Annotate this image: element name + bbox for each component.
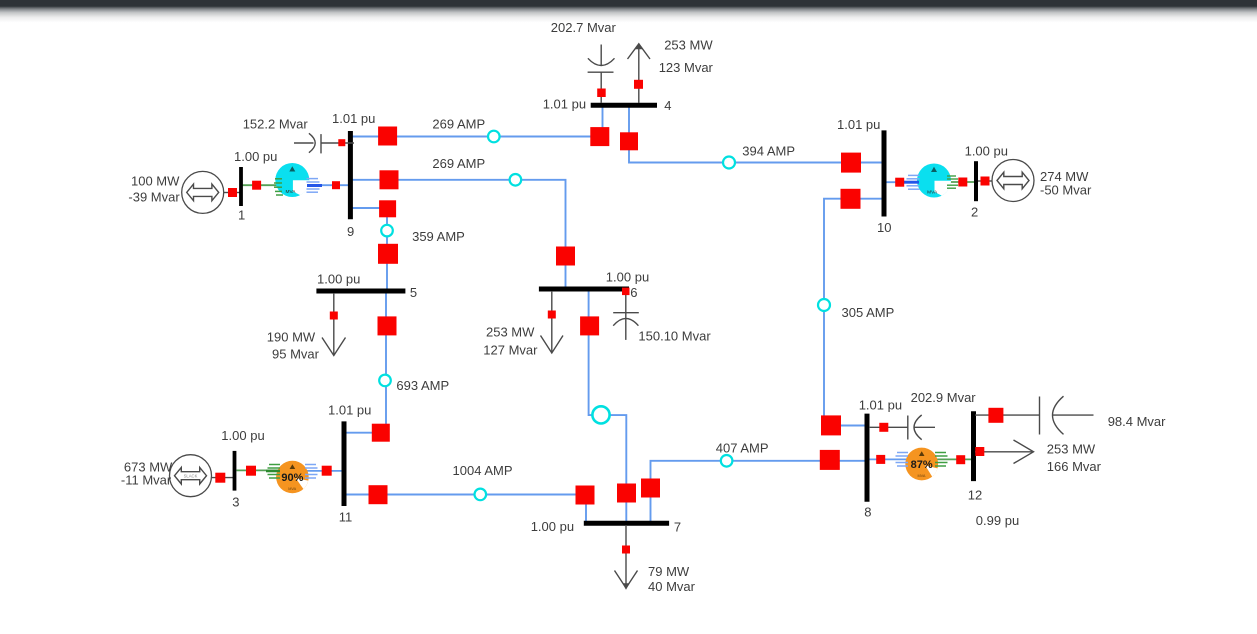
wire line 9-5 (359 AMP)	[352, 208, 387, 289]
svg-text:1.00 pu: 1.00 pu	[531, 519, 574, 534]
capacitor C8 (202.9 Mvar at bus 8)	[869, 415, 935, 440]
svg-text:1.01 pu: 1.01 pu	[332, 111, 375, 126]
svg-text:123 Mvar: 123 Mvar	[659, 60, 714, 75]
svg-text:407 AMP: 407 AMP	[716, 441, 769, 456]
breaker line4-10 b	[841, 153, 861, 173]
breaker bus8-T4	[876, 455, 885, 464]
svg-text:2: 2	[971, 205, 978, 220]
breaker T2-bus2	[958, 178, 967, 187]
svg-text:1.01 pu: 1.01 pu	[543, 96, 586, 111]
capacitor C4 (202.7 Mvar at bus 4)	[588, 45, 615, 104]
pie line11-7	[475, 489, 487, 501]
svg-text:MVA: MVA	[927, 189, 938, 195]
breaker line7-8 a	[641, 479, 660, 498]
svg-text:1.00 pu: 1.00 pu	[234, 149, 277, 164]
svg-text:-50 Mvar: -50 Mvar	[1040, 182, 1092, 197]
T3 center left arrow (dark green)	[266, 470, 280, 473]
svg-text:1.00 pu: 1.00 pu	[221, 428, 264, 443]
wire line 9-4 (269 AMP)	[352, 108, 603, 137]
generator G1	[182, 171, 224, 213]
capacitor C12 (98.4 Mvar at bus 12)	[975, 396, 1094, 434]
svg-text:79 MW: 79 MW	[648, 564, 690, 579]
wire line 9-6 (269 AMP)	[352, 180, 566, 287]
wire T87 to bus 12 (green)	[937, 458, 972, 460]
T3 left flow arrows (green)	[268, 465, 281, 479]
bus 12	[971, 411, 976, 481]
wire T2 to bus 2 (green)	[949, 181, 975, 183]
svg-text:9: 9	[347, 224, 354, 239]
generator G2	[992, 160, 1034, 202]
bus 3	[233, 451, 237, 491]
pie line5-11	[379, 375, 391, 387]
bus 1	[239, 167, 243, 206]
svg-text:693 AMP: 693 AMP	[396, 378, 449, 393]
svg-text:-11 Mvar: -11 Mvar	[121, 473, 172, 488]
svg-text:1.00 pu: 1.00 pu	[965, 143, 1008, 158]
wire gen3 to bus 3	[212, 477, 233, 479]
bus 6	[539, 287, 629, 292]
svg-text:152.2 Mvar: 152.2 Mvar	[243, 117, 309, 132]
svg-text:98.4 Mvar: 98.4 Mvar	[1108, 414, 1166, 429]
pie line9-5	[381, 225, 393, 237]
breaker C9	[338, 139, 345, 146]
svg-text:3: 3	[232, 495, 239, 510]
breaker line11-7 b	[576, 486, 595, 505]
svg-text:253 MW: 253 MW	[486, 324, 535, 339]
capacitor C9 (152.2 Mvar at bus 9)	[294, 133, 354, 153]
svg-text:7: 7	[674, 519, 681, 534]
svg-text:1.00 pu: 1.00 pu	[317, 272, 360, 287]
svg-text:202.9 Mvar: 202.9 Mvar	[911, 390, 977, 405]
svg-text:269 AMP: 269 AMP	[432, 156, 485, 171]
load at bus 7	[615, 525, 638, 588]
breaker T4-bus12	[956, 455, 965, 464]
T2 left flow arrows (blue)	[907, 175, 920, 189]
breaker bus10-T2	[895, 178, 904, 187]
breaker line5-11 b	[372, 424, 390, 442]
svg-text:269 AMP: 269 AMP	[432, 117, 485, 132]
wire line 6-7	[589, 291, 627, 522]
T1 right flow arrows (blue)	[307, 179, 320, 193]
capacitor C6 (150.10 Mvar at bus 6)	[613, 291, 639, 340]
svg-text:8: 8	[864, 505, 871, 520]
T2 center arrow (dark blue)	[903, 181, 919, 184]
svg-text:150.10 Mvar: 150.10 Mvar	[638, 328, 711, 343]
T4 left flow arrows (blue)	[896, 453, 909, 467]
pie line10-8	[818, 299, 830, 311]
svg-text:1.01 pu: 1.01 pu	[859, 398, 902, 413]
breaker load5	[330, 312, 338, 320]
svg-text:253 MW: 253 MW	[1047, 442, 1096, 457]
svg-text:1.01 pu: 1.01 pu	[837, 117, 880, 132]
wire bus 8 to transformer T87 (blue)	[869, 458, 907, 460]
svg-text:100 MW: 100 MW	[131, 173, 180, 188]
svg-text:95 Mvar: 95 Mvar	[272, 347, 320, 362]
svg-text:11: 11	[339, 509, 353, 524]
svg-text:127 Mvar: 127 Mvar	[483, 343, 538, 358]
svg-text:305 AMP: 305 AMP	[842, 305, 895, 320]
pie line9-6	[510, 174, 522, 186]
transformer T2 (bus10-bus2)	[917, 164, 951, 198]
breaker line9-4 a	[378, 127, 397, 146]
transformer T4 87% (bus8-bus12)	[905, 448, 938, 481]
T2 right flow arrows (green)	[947, 176, 958, 188]
wire line 7-8 (407 AMP)	[651, 461, 867, 522]
svg-text:6: 6	[630, 285, 637, 300]
svg-text:90%: 90%	[281, 472, 303, 484]
breaker line6-7 b	[617, 484, 636, 503]
wire bus 10 to transformer T2 (blue)	[886, 181, 918, 183]
svg-text:12: 12	[968, 487, 982, 502]
svg-text:SLACK: SLACK	[184, 474, 198, 479]
load at bus 4 (up arrow)	[628, 44, 651, 103]
svg-text:5: 5	[410, 285, 417, 300]
svg-text:MVA: MVA	[288, 487, 296, 491]
pie line7-8	[721, 455, 733, 467]
svg-text:1: 1	[238, 207, 245, 222]
svg-text:1004 AMP: 1004 AMP	[453, 463, 513, 478]
breaker C8	[879, 423, 888, 432]
svg-text:0.99 pu: 0.99 pu	[976, 513, 1019, 528]
breaker load4	[634, 80, 643, 89]
BUSES	[235, 105, 977, 523]
breaker bus1-T1	[252, 181, 261, 190]
breaker C6	[622, 288, 630, 296]
wire T3 to bus 11 (blue)	[307, 470, 343, 472]
wire bus 1 to transformer T1 (green)	[242, 184, 277, 186]
breaker gen3	[215, 473, 225, 483]
breaker line10-8 a	[841, 189, 861, 209]
bus 2	[974, 161, 978, 201]
breaker line4-10 a	[620, 132, 638, 150]
bus 7	[584, 521, 669, 526]
breaker line11-7 a	[369, 485, 388, 504]
wire line 4-10 (394 AMP)	[629, 108, 882, 163]
breaker line6-7 a	[580, 316, 599, 335]
svg-text:202.7 Mvar: 202.7 Mvar	[551, 20, 617, 35]
svg-text:4: 4	[664, 98, 671, 113]
breaker bus2-gen2	[981, 177, 990, 186]
wire line 11-7 (1004 AMP)	[346, 495, 586, 522]
breaker line10-8 b	[821, 415, 841, 435]
svg-text:1.01 pu: 1.01 pu	[328, 403, 371, 418]
breaker gen1	[228, 188, 237, 197]
header bar shadow	[0, 7, 1257, 23]
pie line9-4	[488, 131, 500, 143]
breaker line9-5 a	[379, 200, 396, 217]
breaker load12	[975, 447, 984, 456]
BREAKERS-SMALL	[215, 80, 1003, 554]
svg-text:190 MW: 190 MW	[267, 330, 316, 345]
load at bus 6	[541, 291, 564, 353]
breaker C12	[988, 408, 1003, 423]
bus 9	[348, 131, 353, 219]
wire bus 3 to transformer T3 (green)	[237, 469, 279, 471]
load at bus 5	[322, 293, 346, 356]
svg-text:166 Mvar: 166 Mvar	[1047, 459, 1102, 474]
wire line 10-8 (305 AMP)	[824, 199, 882, 426]
wire T1 to bus 9 (blue)	[308, 184, 349, 186]
svg-text:MVA: MVA	[285, 189, 296, 195]
bus 4	[591, 103, 657, 108]
T1 left flow arrows (green)	[274, 179, 283, 195]
breaker load6	[548, 311, 556, 319]
breaker T3-bus11	[322, 466, 332, 476]
svg-text:40 Mvar: 40 Mvar	[648, 579, 696, 594]
breaker line7-8 b	[820, 450, 840, 470]
svg-text:87%: 87%	[911, 459, 933, 471]
breaker T1-bus9	[332, 181, 340, 189]
breaker line9-4 b	[590, 127, 609, 146]
breaker line9-6 b	[556, 247, 575, 266]
breaker line9-6 a	[380, 170, 399, 189]
breaker C4	[597, 89, 606, 98]
BREAKERS-LARGE	[369, 127, 862, 505]
bus 10	[882, 130, 887, 216]
bus 5	[316, 289, 405, 294]
breaker line5-11 a	[378, 316, 397, 335]
breaker line9-5 b	[378, 244, 398, 264]
FLOW PIES	[379, 131, 830, 501]
breaker bus3-T3	[246, 466, 256, 476]
wire line 5-11 (693 AMP)	[346, 293, 386, 433]
breaker load7	[622, 546, 630, 554]
bus 11	[342, 421, 347, 506]
T4 right flow arrows (green)	[935, 453, 948, 467]
svg-text:10: 10	[877, 220, 891, 235]
pie line4-10	[723, 157, 735, 169]
generator G3 (slack)	[170, 455, 212, 497]
T3 right flow arrows (blue)	[305, 465, 318, 479]
wire bus 2 to gen2	[978, 180, 993, 182]
transformer T3 90% (bus3-bus11)	[276, 461, 309, 494]
svg-text:MVA: MVA	[918, 474, 926, 478]
pie line6-7	[592, 406, 609, 423]
svg-text:-39 Mvar: -39 Mvar	[128, 189, 180, 204]
transformer T1 (bus1-bus9)	[275, 163, 309, 197]
svg-text:394 AMP: 394 AMP	[742, 143, 795, 158]
T1 center arrow (dark blue)	[307, 184, 322, 187]
svg-text:359 AMP: 359 AMP	[412, 229, 465, 244]
load at bus 12 (right arrow)	[975, 440, 1034, 464]
bus 8	[865, 414, 870, 502]
svg-text:253 MW: 253 MW	[664, 38, 713, 53]
svg-text:1.00 pu: 1.00 pu	[606, 270, 649, 285]
header bar	[0, 0, 1257, 7]
wire gen1 to bus 1	[224, 192, 240, 194]
